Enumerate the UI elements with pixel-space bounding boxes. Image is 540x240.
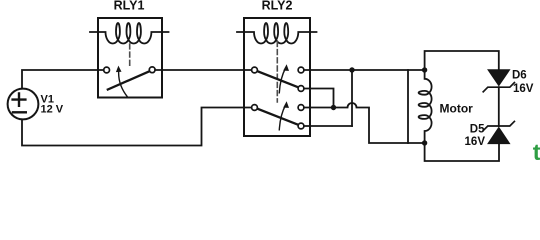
svg-text:D5: D5 — [470, 124, 485, 136]
junction node throw2/throw3 — [331, 105, 336, 110]
wire motor top to zener D6 — [425, 51, 499, 70]
svg-text:D6: D6 — [512, 69, 527, 81]
relay RLY2 throw pin 1 — [298, 67, 304, 73]
relay RLY2 pole2 switch arm — [257, 109, 299, 126]
relay RLY2 mechanical link (dashed) — [276, 42, 278, 103]
svg-text:t: t — [533, 139, 540, 164]
wire RLY2 throw2 down to throw3 net — [304, 89, 334, 108]
voltage source V1 — [8, 89, 39, 120]
wire motor bottom to zener D5 — [425, 143, 499, 161]
relay RLY2 common pin pole1 — [252, 67, 258, 73]
wire RLY2 throw4 to branch — [304, 125, 352, 127]
zener diode D6 — [488, 70, 510, 86]
V1 minus sign — [13, 111, 26, 113]
zener diode D5 — [483, 121, 514, 130]
relay RLY2 pole1 arrow — [279, 68, 285, 93]
wire RLY2 throw1 to motor top — [304, 69, 425, 71]
junction node motor bottom — [422, 140, 427, 145]
svg-text:RLY1: RLY1 — [114, 0, 145, 12]
motor M1 frame line — [407, 70, 409, 143]
svg-text:RLY2: RLY2 — [262, 0, 293, 12]
relay RLY2 pole2 arrow — [279, 105, 285, 130]
wire V1 bottom to RLY2 pole2 common — [22, 108, 252, 146]
relay RLY2 throw pin 3 — [298, 105, 304, 111]
relay RLY1 mechanical link (dashed) — [129, 44, 131, 66]
relay RLY2 common pin pole2 — [252, 105, 258, 111]
relay RLY1 box — [98, 18, 162, 98]
relay RLY2 throw pin 2 — [298, 86, 304, 92]
relay RLY2 throw pin 4 — [298, 123, 304, 129]
wire RLY1 NO contact to RLY2 pole1 common — [155, 69, 252, 71]
motor M1 winding — [419, 70, 432, 143]
relay RLY1 arrow — [119, 71, 128, 98]
wire D6 cathode to D5 cathode — [498, 87, 500, 126]
wire RLY2 throw3 to motor bottom (with hop) — [304, 103, 425, 143]
wire throw1 branch down to throw4 — [351, 70, 353, 126]
relay RLY1 switch arm — [108, 71, 150, 90]
relay RLY2 coil — [237, 23, 317, 44]
svg-text:16V: 16V — [465, 136, 486, 148]
svg-text:Motor: Motor — [440, 102, 474, 116]
junction node throw1 branch — [349, 67, 354, 72]
wire V1 top to RLY1 common — [22, 70, 104, 89]
svg-text:12 V: 12 V — [41, 104, 64, 116]
relay RLY2 box — [244, 18, 310, 136]
V1 plus sign — [13, 93, 26, 105]
junction node motor top — [422, 67, 427, 72]
relay RLY1 coil — [90, 23, 169, 44]
relay RLY2 pole1 switch arm — [257, 71, 299, 88]
relay RLY1 contact pin left — [104, 67, 110, 73]
relay RLY1 contact pin right — [149, 67, 155, 73]
svg-text:16V: 16V — [513, 83, 534, 95]
